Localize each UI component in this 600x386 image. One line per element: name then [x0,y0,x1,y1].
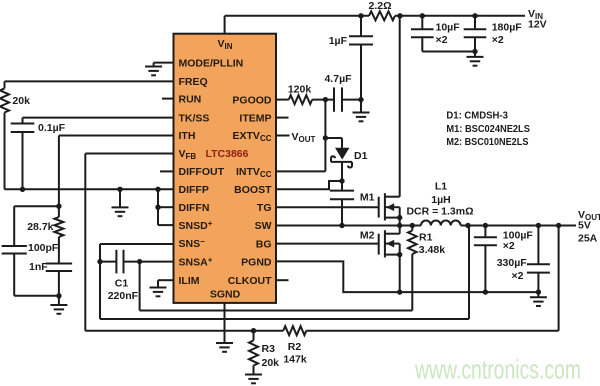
svg-text:4.7µF: 4.7µF [324,73,352,85]
svg-text:3.48k: 3.48k [419,244,445,256]
svg-text:ITH: ITH [179,130,196,142]
svg-text:×2: ×2 [512,270,524,282]
svg-text:www.cntronics.com: www.cntronics.com [414,355,581,385]
svg-text:TG: TG [257,202,272,214]
svg-text:180µF: 180µF [492,22,523,34]
svg-text:SGND: SGND [210,289,241,301]
svg-text:PGND: PGND [241,256,272,268]
svg-text:10µF: 10µF [436,22,461,34]
svg-text:100pF: 100pF [28,242,59,254]
svg-text:D1: D1 [354,150,368,162]
svg-text:SNSD+: SNSD+ [179,219,213,232]
svg-text:147k: 147k [283,354,307,366]
svg-text:RUN: RUN [179,93,202,105]
svg-text:DIFFN: DIFFN [179,202,210,214]
svg-text:M2: BSC010NE2LS: M2: BSC010NE2LS [446,136,528,148]
svg-text:×2: ×2 [492,34,504,46]
svg-text:D1: CMDSH-3: D1: CMDSH-3 [446,110,508,122]
svg-text:DIFFP: DIFFP [179,184,209,196]
svg-text:CLKOUT: CLKOUT [228,275,272,287]
svg-text:M2: M2 [360,230,375,242]
svg-text:1nF: 1nF [29,261,48,273]
svg-text:×2: ×2 [503,240,515,252]
svg-text:BG: BG [256,238,272,250]
svg-text:L1: L1 [435,181,447,193]
svg-text:0.1µF: 0.1µF [38,122,66,134]
svg-text:VOUT: VOUT [292,131,316,144]
svg-text:1µF: 1µF [329,35,348,47]
svg-text:SNSA+: SNSA+ [179,255,213,268]
svg-text:SW: SW [255,220,272,232]
svg-text:ILIM: ILIM [179,275,200,287]
svg-text:R3: R3 [262,343,276,355]
svg-text:220nF: 220nF [108,290,139,302]
svg-text:DIFFOUT: DIFFOUT [179,166,225,178]
svg-text:FREQ: FREQ [179,76,208,88]
svg-text:TK/SS: TK/SS [179,112,210,124]
svg-text:120k: 120k [288,84,312,96]
svg-text:C1: C1 [115,277,129,289]
svg-text:MODE/PLLIN: MODE/PLLIN [179,57,244,69]
svg-text:12V: 12V [528,18,547,30]
svg-text:LTC3866: LTC3866 [206,148,249,160]
svg-text:R2: R2 [288,341,302,353]
svg-text:DCR = 1.3mΩ: DCR = 1.3mΩ [406,206,473,218]
svg-text:330µF: 330µF [497,257,528,269]
svg-text:5V: 5V [578,220,591,232]
svg-text:M1: BSC024NE2LS: M1: BSC024NE2LS [446,123,530,135]
svg-text:28.7k: 28.7k [27,221,53,233]
svg-text:2.2Ω: 2.2Ω [368,0,391,12]
svg-text:20k: 20k [262,357,280,369]
svg-text:PGOOD: PGOOD [232,94,272,106]
svg-text:R1: R1 [419,232,433,244]
svg-text:1µH: 1µH [431,194,450,206]
svg-text:25A: 25A [578,232,598,244]
svg-text:×2: ×2 [436,34,448,46]
svg-text:20k: 20k [12,95,30,107]
svg-text:ITEMP: ITEMP [239,112,271,124]
svg-text:BOOST: BOOST [234,184,272,196]
svg-text:M1: M1 [360,192,375,204]
